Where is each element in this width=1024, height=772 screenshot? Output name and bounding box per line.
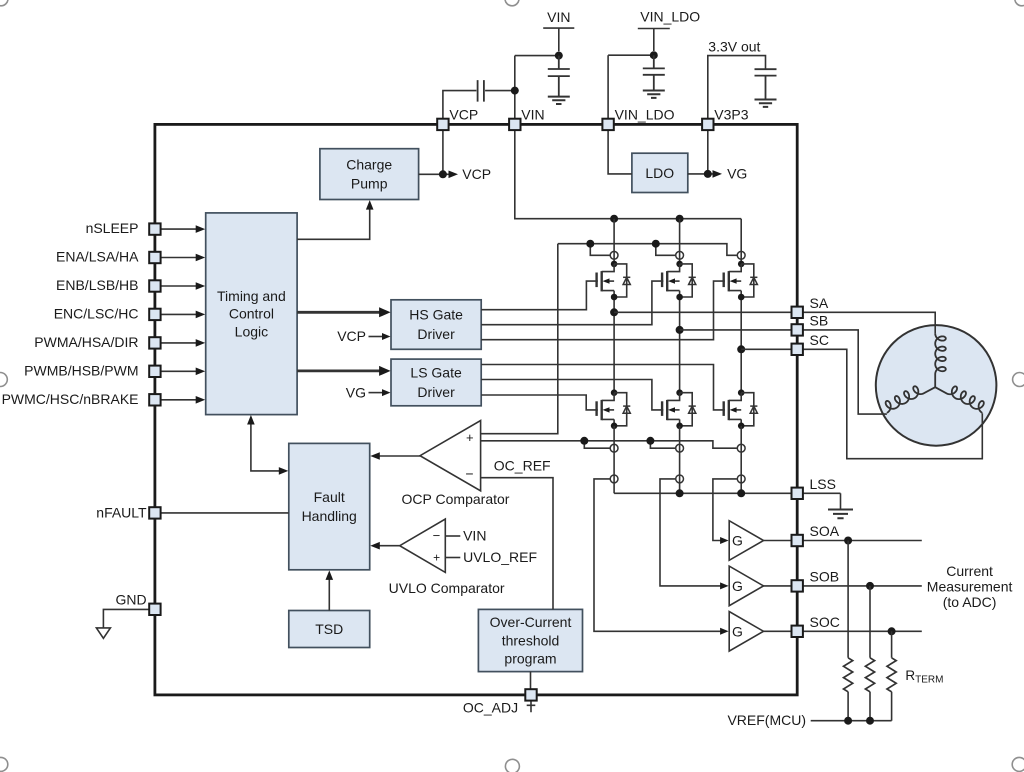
gate terminal circle (high-side C): [737, 251, 745, 259]
motor winding (right, phase C): [935, 386, 984, 413]
wire: VIN_LDO pin to LDO input: [608, 130, 632, 174]
svg-text:Driver: Driver: [417, 384, 455, 400]
svg-text:OC_REF: OC_REF: [494, 458, 551, 474]
block: LS Gate Driver: [391, 359, 481, 406]
wire: Timing-Fault handling bidirectional arrows: [251, 420, 282, 471]
svg-text:Charge: Charge: [346, 157, 392, 173]
motor winding (top, phase A): [935, 333, 946, 387]
wire: SC net (phase C to motor): [741, 349, 982, 458]
wire: high-side gate feed line (to OCP sense): [558, 244, 737, 256]
pin VIN (top): [509, 119, 520, 130]
ground (VIN_LDO cap): [643, 91, 665, 98]
capacitor C4 (3.3V out): [755, 69, 777, 99]
amplifier G (SOC): [729, 612, 763, 652]
op-amp OCP Comparator: [420, 421, 481, 491]
svg-text:SC: SC: [810, 332, 829, 348]
svg-text:threshold: threshold: [502, 632, 560, 648]
svg-text:HS Gate: HS Gate: [409, 307, 463, 323]
resistor R1 (RTERM, SOA): [847, 541, 849, 721]
wire: half-bridge column A (drain rail to phase node): [613, 219, 615, 393]
svg-text:nFAULT: nFAULT: [96, 505, 147, 521]
wire: SOB output line: [803, 585, 922, 587]
svg-text:(to ADC): (to ADC): [943, 594, 997, 610]
pin nSLEEP: [149, 223, 160, 234]
wire: HS Gate Driver outputs to high-side gates: [481, 281, 725, 340]
pin OC_ADJ: [525, 689, 536, 700]
pin LSS: [792, 488, 803, 499]
svg-text:UVLO Comparator: UVLO Comparator: [389, 580, 505, 596]
pin GND: [149, 604, 160, 615]
pin VCP (top): [437, 119, 448, 130]
wire: TSD to Fault Handling (arrow up): [328, 576, 330, 611]
pin SC: [792, 344, 803, 355]
wire: OCP comparator output to Fault Handling: [376, 455, 420, 457]
wire/net: VIN into UVLO comparator: [445, 535, 460, 537]
pin ENA/LSA/HA: [149, 252, 160, 263]
pin V3P3 (top): [702, 119, 713, 130]
motor winding (left, phase B): [886, 386, 936, 413]
wire: phase B sense to SOB amplifier: [660, 479, 722, 586]
block: TSD: [289, 611, 370, 648]
svg-text:V3P3: V3P3: [714, 107, 748, 123]
resistor R2 (RTERM, SOB): [869, 586, 871, 721]
wire: half-bridge column C (drain rail to phase node): [740, 219, 742, 393]
svg-text:RTERM: RTERM: [905, 668, 943, 686]
svg-text:VG: VG: [346, 384, 366, 400]
wire: phase C sense to SOA amplifier: [713, 479, 737, 541]
wire: VCP pin to charge-pump capacitor: [443, 91, 515, 119]
svg-text:VG: VG: [727, 166, 747, 182]
svg-text:VCP: VCP: [337, 328, 366, 344]
ground (signal ground, open arrow): [96, 628, 110, 638]
pin SOB: [792, 580, 803, 591]
wire: low-side source column B with sense terminals: [679, 426, 681, 494]
wire: PWMC/HSC/nBRAKE input arrow into Timing logic: [160, 399, 197, 401]
svg-text:+: +: [466, 430, 474, 445]
block: Over-Current threshold program: [478, 609, 582, 671]
gate terminal circle (high-side B): [676, 251, 684, 259]
wire: VIN node to VIN pin (with junction): [515, 56, 559, 119]
svg-text:3.3V out: 3.3V out: [708, 39, 760, 55]
svg-text:Logic: Logic: [235, 323, 268, 339]
pin ENC/LSC/HC: [149, 309, 160, 320]
svg-text:SOB: SOB: [810, 569, 840, 585]
pin SA: [792, 307, 803, 318]
motor M1 (3-phase): [876, 325, 997, 446]
wire: SB net (phase B to motor): [680, 330, 887, 414]
selection handle middle-left: [0, 373, 7, 387]
svg-text:SB: SB: [810, 313, 829, 329]
selection handle bottom-right: [1012, 757, 1024, 771]
svg-text:VREF(MCU): VREF(MCU): [727, 712, 806, 728]
svg-text:ENC/LSC/HC: ENC/LSC/HC: [54, 305, 139, 321]
pin SOC: [792, 626, 803, 637]
wire: VCP pin down to charge pump output: [442, 130, 444, 174]
wire: VREF(MCU) net: [811, 720, 892, 722]
wire: ENC/LSC/HC input arrow into Timing logic: [160, 313, 197, 315]
pin PWMB/HSB/PWM: [149, 366, 160, 377]
svg-text:−: −: [465, 466, 473, 482]
resistor R3 (RTERM, SOC): [891, 631, 893, 720]
wire: SA net (phase A to motor): [614, 312, 935, 333]
transistor low-side C with body diode: [729, 393, 741, 401]
svg-text:Over-Current: Over-Current: [490, 614, 572, 630]
op-amp UVLO Comparator: [400, 519, 446, 572]
svg-text:Timing and: Timing and: [217, 288, 286, 304]
wire: Timing to HS Gate Driver (bold arrow): [297, 311, 382, 314]
wire: PWMB/HSB/PWM input arrow into Timing logic: [160, 370, 197, 372]
wire: VIN_LDO node to VIN_LDO pin (with junction): [608, 55, 654, 118]
svg-text:G: G: [732, 578, 743, 594]
wire: GND pin to signal ground: [103, 609, 149, 628]
svg-text:OC_ADJ: OC_ADJ: [463, 700, 518, 716]
wire: low-side source column C with sense terminals: [740, 426, 742, 494]
wire: charge pump enable from Timing logic (arrow up): [297, 206, 370, 240]
svg-text:Driver: Driver: [417, 326, 455, 342]
svg-text:OCP Comparator: OCP Comparator: [402, 491, 510, 507]
wire: SOA amplifier output to pin: [764, 540, 792, 542]
wire: SOC output line: [803, 630, 922, 632]
wire: Timing to LS Gate Driver (bold arrow): [297, 369, 382, 372]
wire: OCP comparator + input vertical: [481, 244, 558, 434]
amplifier G (SOB): [729, 566, 763, 606]
transistor high-side B with body diode: [667, 264, 679, 272]
svg-text:PWMA/HSA/DIR: PWMA/HSA/DIR: [34, 334, 138, 350]
ground (3.3V cap): [755, 100, 777, 107]
ground (VIN cap): [548, 97, 570, 104]
wire: LSS external to ground: [840, 493, 842, 509]
ground (LSS): [828, 510, 853, 519]
capacitor C2 (VIN bypass): [548, 56, 570, 97]
svg-text:SOA: SOA: [810, 523, 840, 539]
svg-text:VIN: VIN: [521, 107, 544, 123]
selection handle top-right: [1015, 0, 1024, 6]
svg-text:PWMC/HSC/nBRAKE: PWMC/HSC/nBRAKE: [2, 391, 139, 407]
block: Charge Pump: [320, 149, 419, 200]
wire: low-side source column A with sense terminals: [613, 426, 615, 494]
sense terminal circles (phase C): [737, 444, 745, 452]
svg-text:G: G: [732, 623, 743, 639]
svg-text:VIN: VIN: [463, 528, 486, 544]
svg-text:VIN_LDO: VIN_LDO: [615, 107, 675, 123]
pin PWMA/HSA/DIR: [149, 337, 160, 348]
svg-text:Measurement: Measurement: [927, 579, 1013, 595]
svg-text:Pump: Pump: [351, 175, 388, 191]
svg-text:UVLO_REF: UVLO_REF: [463, 549, 537, 565]
wire: OC_ADJ external stub: [527, 701, 536, 713]
wire: LDO output to V3P3, VG net arrow: [688, 130, 716, 174]
block: HS Gate Driver: [391, 300, 481, 350]
pin SB: [792, 324, 803, 335]
svg-text:Current: Current: [946, 563, 993, 579]
selection handle bottom-center: [505, 759, 519, 772]
wire: OC_ADJ from Over-Current threshold program to pin: [530, 672, 532, 689]
selection handle middle-right: [1013, 373, 1024, 387]
svg-text:VIN_LDO: VIN_LDO: [640, 9, 700, 25]
pin VIN_LDO (top): [602, 119, 613, 130]
svg-text:LS Gate: LS Gate: [410, 365, 462, 381]
block: Timing and Control Logic: [206, 213, 297, 415]
amplifier G (SOA): [729, 521, 763, 561]
wire: UVLO comparator output to Fault Handling: [376, 545, 400, 547]
IC boundary (device outline): [155, 124, 797, 695]
svg-text:ENB/LSB/HB: ENB/LSB/HB: [56, 277, 138, 293]
block: Fault Handling: [289, 443, 370, 569]
wire: ENA/LSA/HA input arrow into Timing logic: [160, 257, 197, 259]
svg-text:nSLEEP: nSLEEP: [86, 220, 139, 236]
svg-text:SA: SA: [810, 295, 829, 311]
wire: LSS net (low-side sources to LSS pin): [614, 492, 840, 494]
wire: SOC amplifier output to pin: [764, 630, 792, 632]
transistor low-side A with body diode: [602, 393, 614, 401]
svg-text:LSS: LSS: [810, 476, 836, 492]
capacitor C1 (VCP charge pump, horizontal): [478, 80, 484, 102]
svg-text:program: program: [504, 651, 556, 667]
wire: low-side current sense line to OCP comparator: [481, 441, 737, 448]
wire: half-bridge column B (drain rail to phase node): [679, 219, 681, 393]
svg-text:+: +: [433, 551, 440, 565]
wire: SOA output line: [803, 540, 922, 542]
transistor high-side A with body diode: [602, 264, 614, 272]
svg-text:Control: Control: [229, 306, 274, 322]
svg-text:VCP: VCP: [462, 166, 491, 182]
wire: PWMA/HSA/DIR input arrow into Timing logic: [160, 342, 197, 344]
selection handle top-left: [0, 0, 8, 6]
svg-text:VCP: VCP: [449, 107, 478, 123]
svg-text:G: G: [732, 533, 743, 549]
wire/net: UVLO_REF into UVLO comparator: [445, 557, 460, 559]
wire: nSLEEP input arrow into Timing logic: [160, 228, 197, 230]
svg-text:TSD: TSD: [315, 621, 343, 637]
pin ENB/LSB/HB: [149, 280, 160, 291]
selection handle top-center: [505, 0, 519, 6]
svg-text:VIN: VIN: [547, 9, 570, 25]
pin nFAULT: [149, 507, 160, 518]
wire: OC_REF from Over-Current threshold program: [481, 478, 553, 610]
svg-text:Handling: Handling: [302, 508, 357, 524]
svg-text:LDO: LDO: [645, 165, 674, 181]
sense terminal circles (phase B): [676, 444, 684, 452]
svg-text:Fault: Fault: [314, 489, 345, 505]
sense terminal circles (phase A): [610, 444, 618, 452]
pin SOA: [792, 535, 803, 546]
svg-text:PWMB/HSB/PWM: PWMB/HSB/PWM: [24, 362, 138, 378]
svg-text:−: −: [433, 528, 441, 543]
transistor high-side C with body diode: [729, 264, 741, 272]
capacitor C3 (VIN_LDO bypass): [643, 55, 665, 90]
wire: charge pump output, VCP net arrow: [419, 173, 451, 175]
wire: phase A sense to SOC amplifier: [594, 479, 722, 631]
wire: nFAULT pin to Fault Handling: [160, 512, 288, 514]
block: LDO: [632, 153, 688, 192]
svg-text:GND: GND: [115, 592, 146, 608]
pin PWMC/HSC/nBRAKE: [149, 394, 160, 405]
wire: VIN pin to bridge top rail: [515, 130, 741, 219]
selection handle bottom-left: [0, 757, 8, 771]
wire: ENB/LSB/HB input arrow into Timing logic: [160, 285, 197, 287]
wire: SOB amplifier output to pin: [764, 585, 792, 587]
gate terminal circle (high-side A): [610, 251, 618, 259]
wire: 3.3V out net (V3P3 pin to cap): [708, 56, 766, 119]
svg-text:SOC: SOC: [810, 614, 840, 630]
transistor low-side B with body diode: [667, 393, 679, 401]
svg-text:ENA/LSA/HA: ENA/LSA/HA: [56, 249, 139, 265]
wire: LS Gate Driver outputs to low-side gates: [481, 365, 725, 410]
